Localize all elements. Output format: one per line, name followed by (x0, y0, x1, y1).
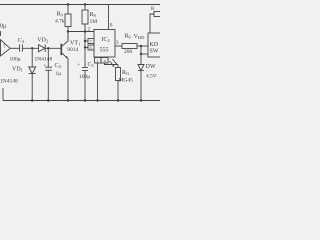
svg-text:555: 555 (100, 48, 109, 54)
transistor VT1 collector lead (61, 32, 68, 47)
ground dot VD1 (31, 99, 33, 101)
node dot supply-R8 (84, 3, 86, 5)
svg-text:VD2: VD2 (37, 38, 48, 44)
svg-text:DW: DW (146, 64, 156, 70)
wire music IC top pin to resistor R (cut off) (150, 14, 154, 33)
wire VDD node down to DW (140, 54, 142, 65)
svg-text:9014: 9014 (67, 47, 78, 53)
wire collector node to 555 pin 2 (68, 31, 94, 33)
svg-text:4.7k: 4.7k (55, 19, 65, 25)
node dot A (C3/VD2/VD1) (31, 47, 33, 49)
svg-text:R8: R8 (90, 12, 97, 18)
wire C5 to ground rail (84, 71, 86, 101)
pin 6 square (88, 45, 94, 50)
resistor R9 (67, 5, 69, 15)
wire VD1 to ground rail (31, 74, 33, 101)
svg-text:MG45: MG45 (119, 78, 134, 84)
ground dot C5 (84, 99, 86, 101)
node dot B (VD2/C4/base) (47, 47, 49, 49)
svg-text:1M: 1M (90, 19, 98, 25)
svg-text:1N4148: 1N4148 (0, 79, 18, 85)
svg-text:1μ: 1μ (56, 71, 62, 77)
svg-text:R6: R6 (125, 34, 132, 40)
wire VD2 to node B (45, 47, 61, 49)
svg-text:C5: C5 (88, 62, 95, 68)
svg-text:SW: SW (150, 49, 159, 55)
wire C4 to ground rail (47, 70, 49, 100)
transistor VT1 emitter lead with arrow (61, 52, 68, 100)
svg-text:100μ: 100μ (10, 57, 21, 63)
op-amp IC1 output triangle (cut off at left edge) (1, 40, 11, 56)
wire bottom ground rail (3, 100, 160, 102)
wire 555 pin 3 to R6 (115, 45, 122, 47)
ground dot pin1 (96, 99, 98, 101)
wire VDD node down and to music IC (140, 46, 142, 54)
wire stub to pin 6 (85, 47, 88, 49)
wire fragment at left edge (0, 31, 2, 36)
ground dot C4 (47, 99, 49, 101)
wire 555 pin 4 to RG (105, 63, 119, 65)
svg-text:100μ: 100μ (79, 74, 90, 80)
pin 1 square (95, 58, 102, 64)
wire R8 node down to pins 7,6 and C5 (84, 32, 86, 68)
wire node A down to VD1 (31, 48, 33, 67)
svg-text:R9: R9 (57, 12, 64, 18)
wire 555 pin 1 to ground rail (97, 63, 99, 101)
wire top supply rail (0, 4, 160, 6)
svg-text:IC2: IC2 (102, 37, 110, 43)
node dot VDD lower (140, 53, 142, 55)
capacitor C4 (45, 66, 52, 68)
node dot supply-R9 (67, 3, 69, 5)
node dot VDD (140, 45, 142, 47)
svg-text:+: + (77, 63, 80, 68)
wire R6 to VDD node (137, 45, 148, 47)
resistor R (cut off at right edge) (154, 12, 161, 17)
capacitor C3 (19, 44, 21, 51)
node dot collector-pin2 (67, 30, 69, 32)
svg-text:VT1: VT1 (70, 41, 80, 47)
wire left edge stub to ground (2, 88, 4, 101)
node dot pin7 (84, 40, 86, 42)
svg-text:C4: C4 (55, 63, 62, 69)
ground dot RG (117, 99, 119, 101)
svg-text:200: 200 (124, 49, 133, 55)
wire node B down to C4 (47, 48, 49, 67)
svg-text:C3: C3 (18, 38, 25, 44)
ground dot DW (140, 99, 142, 101)
op-amp U2 555 timer box IC2 (94, 30, 115, 58)
resistor R8 (84, 5, 86, 11)
wire DW to ground rail (140, 71, 142, 101)
diode VD2 (39, 45, 46, 52)
resistor R6 (122, 44, 137, 49)
svg-text:+: + (44, 64, 47, 69)
svg-text:KD: KD (150, 42, 159, 48)
capacitor C5 (82, 67, 88, 69)
photoresistor RG (117, 65, 119, 68)
svg-text:4.5V: 4.5V (146, 74, 157, 80)
light arrows onto RG (110, 61, 115, 67)
node dot R8-pin2 wire (84, 30, 86, 32)
svg-text:1N4148: 1N4148 (35, 57, 53, 63)
pin 4 square (101, 58, 108, 64)
pin 7 square (88, 39, 94, 44)
music IC box KD/SW (cut off at right edge) (148, 33, 162, 57)
node dot pin6 (84, 46, 86, 48)
svg-text:0μ: 0μ (0, 24, 6, 30)
ground dot emitter (67, 99, 69, 101)
wire 555 pin 8 to supply rail (108, 5, 110, 30)
wire C3 to node A (22, 47, 38, 49)
diode VD1 (29, 67, 36, 74)
wire amp output to C3 (10, 47, 19, 49)
transistor VT1 base bar (60, 44, 62, 56)
svg-text:1: 1 (97, 58, 99, 63)
svg-text:VDD: VDD (134, 34, 146, 40)
wire stub to pin 7 (85, 40, 88, 42)
svg-text:RG: RG (122, 70, 130, 76)
zener diode DW (138, 65, 144, 71)
svg-text:VD1: VD1 (12, 67, 23, 73)
